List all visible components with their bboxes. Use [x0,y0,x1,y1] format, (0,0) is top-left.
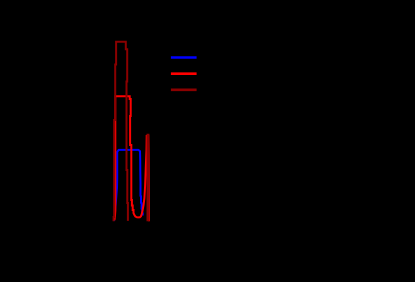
legend handle: blue line [171,56,197,59]
blue curve (broad low-resolution line profile, drawn first) [114,150,143,221]
darkred curve (high-resolution narrow spectral lines, drawn last) [114,42,128,221]
red curve (medium-resolution profile: main pulse, U valley, secondary peak) [114,96,148,221]
legend handle: darkred line [171,89,197,92]
legend handle: red line [171,72,197,75]
darkred secondary narrow spike [147,135,150,222]
